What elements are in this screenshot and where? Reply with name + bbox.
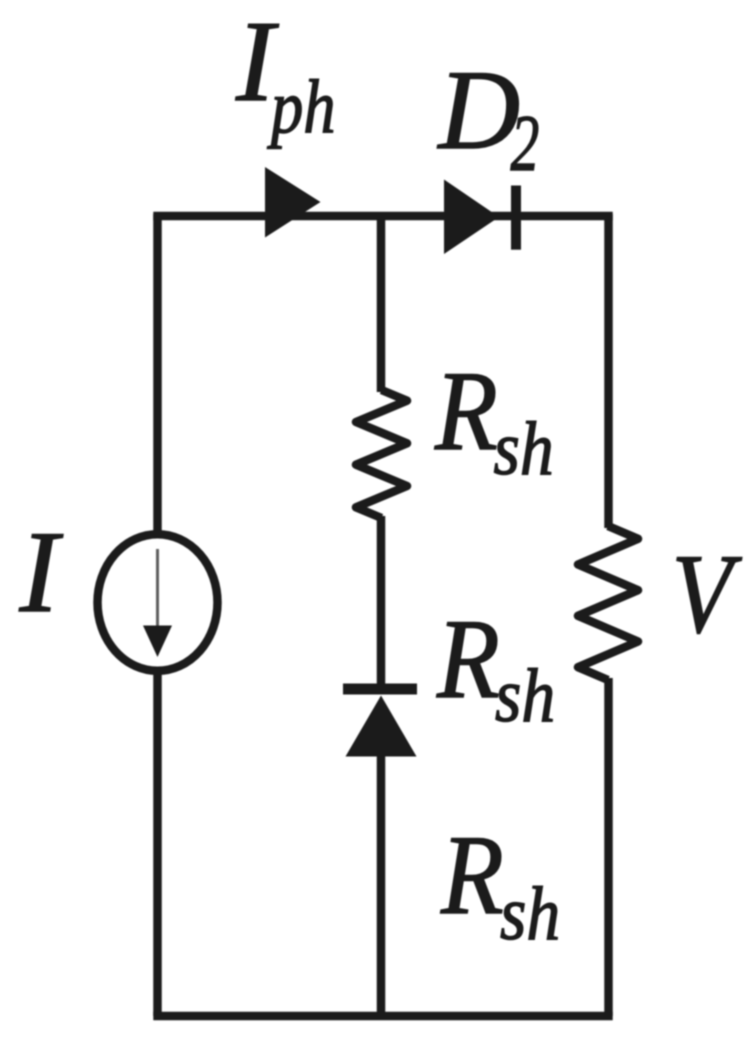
diode D2 cathode bar [511,186,521,250]
wire bottom [153,1012,612,1021]
svg-text:D: D [437,48,521,173]
wire middle upper [377,214,386,392]
svg-text:sh: sh [494,406,554,491]
wire top [153,212,612,221]
wire middle mid [377,516,386,690]
diode D1 triangle [346,696,417,757]
svg-text:R: R [436,598,500,722]
label D2 [437,48,540,188]
label Iph [235,0,336,149]
svg-text:R: R [434,350,498,474]
svg-text:ph: ph [266,65,335,149]
diode D1 cathode bar [343,684,417,695]
current source I inner arrow [143,549,172,657]
resistor V zigzag [578,526,638,680]
resistor Rsh middle zigzag [356,390,407,518]
svg-text:R: R [440,814,504,938]
wire left upper [153,214,162,533]
wire middle lower [377,754,386,1016]
label Rsh 1 [434,350,554,491]
wire right lower [604,678,613,1016]
diode D2 triangle [444,180,499,255]
wire left lower [153,672,162,1016]
label Rsh 3 [440,814,560,956]
wire right upper [604,214,613,528]
current arrow Iph on top wire [265,167,321,238]
svg-text:V: V [672,532,743,657]
label Rsh 2 [436,598,555,738]
svg-text:sh: sh [500,871,560,956]
current source I circle [98,534,218,671]
svg-text:sh: sh [495,653,555,738]
svg-text:I: I [19,508,64,637]
svg-text:2: 2 [511,100,540,188]
